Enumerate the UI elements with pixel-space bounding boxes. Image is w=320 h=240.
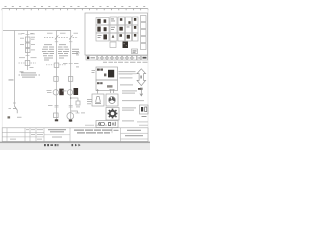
din channel box 4 (141, 37, 147, 43)
din channel box 1 (141, 16, 147, 22)
legend left text (87, 99, 92, 104)
fan icon box (106, 94, 118, 106)
terminal tick chain D mid (69, 63, 73, 65)
motor M1 bottom mark (69, 120, 72, 122)
title block center divider (44, 134, 70, 136)
coil K3 chain C (54, 113, 59, 118)
terminal tick chain D low (69, 106, 73, 108)
terminal tick chain C low (55, 106, 59, 108)
wire branch to Y1 (71, 98, 78, 101)
title block small texts (10, 129, 43, 139)
right notes row1 (122, 91, 137, 94)
terminal tick chain C (55, 41, 58, 43)
aux box row2 col2 (110, 25, 117, 33)
aux box row1 col2 (110, 17, 117, 25)
wire branch right at 111 (71, 111, 78, 113)
viewer background strip (0, 143, 150, 150)
terminal labels above switches (47, 32, 78, 35)
terminal strip end box (142, 56, 148, 61)
frame right border (147, 9, 149, 142)
frame left border (1, 9, 3, 142)
title block outer (2, 128, 148, 142)
lamp P1 photo (59, 89, 63, 96)
updown arrow inner mark (140, 76, 141, 79)
lamp P2 side text (62, 90, 67, 93)
module PLC photo box (96, 25, 109, 33)
chain C text row (44, 43, 66, 46)
title block center sub text (52, 136, 62, 139)
updown arrow leader (130, 73, 137, 75)
device AV photo card (96, 67, 118, 80)
wire rail bridge to chains C and D (56, 30, 58, 32)
node chain D junction (70, 97, 72, 99)
right notes row4 (122, 120, 134, 123)
selector box (96, 121, 118, 128)
panel enclosure outline (85, 13, 148, 55)
updown arrow symbol (137, 69, 146, 86)
label plate box (132, 49, 138, 54)
contactor K1 (25, 43, 30, 48)
relay box row3 col3 (118, 33, 125, 41)
cable arrow W1 (13, 106, 17, 113)
relay K2 chain C (54, 77, 58, 82)
bell icon box (92, 94, 104, 106)
title block main title (74, 130, 112, 134)
contactor photo block (123, 42, 129, 49)
down arrow symbol (140, 88, 143, 96)
tick label (48, 104, 53, 107)
breaker box row2 col5 (133, 25, 139, 33)
relay box row1 col3 (118, 17, 125, 25)
terminal X1 labels (22, 32, 34, 35)
module drive photo box (96, 33, 109, 41)
title block footer text above (85, 122, 148, 126)
lamp P1 side text (47, 90, 52, 93)
chain B mid text (19, 57, 37, 68)
IO box caption (142, 116, 147, 117)
wire chain C (56, 31, 58, 122)
switch S1 with linkage (19, 61, 37, 66)
card left text (92, 70, 96, 73)
din channel box 2 (141, 23, 147, 29)
frame top ruler (2, 9, 148, 11)
relay box row1 col4 (126, 17, 132, 25)
motor M1 (67, 113, 74, 120)
tick side text (63, 62, 79, 65)
device EP card (96, 80, 118, 91)
terminal cell marks (98, 57, 140, 59)
breaker F1 side text (20, 37, 35, 40)
terminal tick chain D (69, 41, 72, 43)
chain D label block (58, 47, 79, 59)
icon above fan (109, 90, 114, 94)
lamp P2 chain D (67, 90, 72, 95)
title block revision grid (2, 128, 148, 142)
switch Q1 dashed linkage (44, 37, 78, 39)
label -X0 (9, 72, 24, 81)
valve Y1 label (76, 106, 80, 109)
wire chain B (27, 31, 29, 71)
din channel box 5 (141, 44, 147, 50)
page bottom edge (0, 142, 150, 143)
valve Y1 (76, 101, 80, 105)
aux box row3 col2 (110, 33, 117, 41)
chain C label block (42, 47, 54, 61)
title block center title (48, 129, 66, 132)
right notes row3 (122, 108, 136, 111)
terminal strip cells (98, 56, 141, 61)
right notes row2 (122, 99, 144, 102)
overload F2 (25, 49, 30, 53)
terminal strip X10 head (86, 56, 97, 61)
module PSU photo box (96, 18, 109, 26)
terminal X1 ticks (26, 34, 30, 36)
relay K4 chain D (68, 77, 72, 82)
icon above bell (96, 89, 99, 94)
relay box row2 col3 (118, 25, 125, 33)
cable W1 label (9, 108, 22, 118)
wire chain D with rail bridge (57, 31, 71, 123)
lamp P1 chain C (53, 90, 58, 95)
gear icon box (106, 108, 119, 121)
viewer toolbar icons left (44, 144, 58, 146)
viewer toolbar icons right (72, 144, 81, 147)
lamp P2 photo (74, 88, 79, 95)
label wire marks near rail (18, 33, 35, 36)
chain B mid tick (26, 55, 30, 57)
updown notes text (119, 71, 136, 85)
title block drawing number cell (114, 130, 144, 136)
wire L1 power rail (3, 30, 71, 32)
switch S2 chain C (46, 63, 66, 67)
relay box row2 col4 (126, 25, 132, 33)
breaker box row3 col5 (133, 33, 139, 41)
wire chain A feeder (13, 31, 16, 107)
breaker F1 (25, 37, 30, 42)
chain B label block (19, 73, 41, 78)
din channel box 3 (141, 30, 147, 36)
breaker box row1 col5 (133, 17, 139, 25)
switch Q1 pole chain D (69, 35, 72, 39)
aux box row4 col2 (110, 42, 116, 48)
coil K3 bottom mark (55, 119, 58, 121)
updown arrow caption (138, 88, 143, 90)
branch label (81, 112, 85, 115)
terminal tick branch (76, 112, 80, 114)
terminal strip caption (103, 61, 148, 64)
IO button box (140, 105, 149, 114)
switch Q1 pole chain C (55, 35, 58, 39)
panel left outside text (76, 53, 80, 68)
contactor K1 side text (20, 43, 35, 46)
overload F2 side text (31, 49, 35, 52)
relay box row3 col4 (126, 33, 132, 41)
ruler column numbers (5, 6, 146, 7)
